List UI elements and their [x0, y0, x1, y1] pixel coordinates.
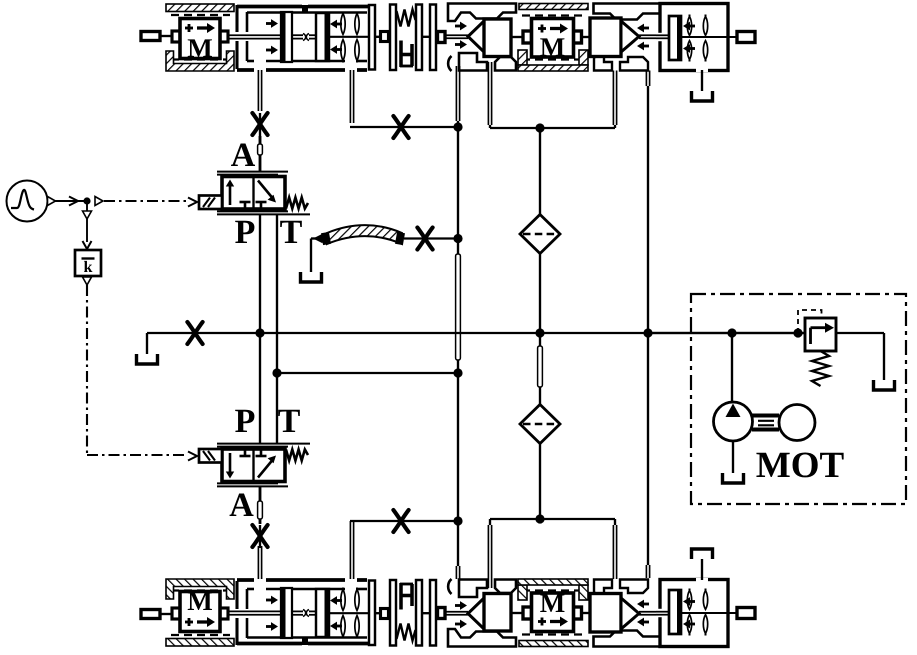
junction (732,333) — [727, 328, 736, 337]
P line between valves — [259, 214, 261, 443]
gain output triangle — [83, 277, 92, 285]
chamber arrows — [688, 623, 695, 626]
junction (648,333) — [643, 328, 652, 337]
chamber springs — [689, 15, 691, 19]
piston rod of C1 — [228, 614, 281, 616]
signal branch port triangle — [95, 197, 103, 206]
valve port rails (bottom) — [217, 210, 288, 212]
orifice O1 — [252, 113, 267, 135]
contact spring (top) — [397, 10, 416, 27]
mass label M (top-left) — [188, 39, 212, 57]
spring chamber arrows of C1 — [335, 23, 342, 26]
end-stop plate C — [430, 5, 436, 71]
housing lower pieces (left) — [448, 56, 451, 71]
hatched guide below mass M2 — [522, 589, 585, 591]
poppet cone P2 — [621, 598, 639, 629]
cylinder C1 housing — [237, 642, 302, 646]
relief valve spring — [812, 351, 829, 386]
link to mass M2 — [512, 36, 524, 38]
cylinder C1 right end plate — [369, 5, 375, 70]
hatched guide housing of top-left mass — [166, 4, 234, 12]
mass block M2 — [523, 31, 532, 43]
proportional solenoid — [199, 449, 222, 463]
link to mass M2 — [512, 612, 524, 614]
end-stop plate C — [430, 580, 436, 646]
valve right cell diagonal arrow — [258, 181, 273, 199]
cylinder C1 housing — [237, 5, 302, 9]
relief valve outlet to tank T4 — [836, 332, 884, 334]
spring chamber arrows of C1 — [335, 625, 342, 628]
line y127 with orifice O2 — [350, 126, 458, 128]
spring chamber housing — [660, 580, 728, 647]
coupling connector square right — [436, 612, 438, 614]
spring-side piston of C1 — [316, 589, 329, 637]
supply line into power unit — [648, 332, 805, 334]
chamber springs — [689, 632, 691, 636]
left anchor stub of top-left mass — [141, 32, 160, 41]
line y519 bottom — [490, 518, 615, 520]
poppet body P2 — [590, 18, 621, 57]
housing upper band (left) of poppet block — [448, 629, 516, 647]
line y128 to spring-chamber port — [490, 127, 615, 129]
relief valve RV1 — [805, 318, 836, 351]
valve blocked-port symbols — [244, 203, 247, 210]
long line x458 down — [457, 127, 459, 254]
poppet body P1 — [484, 19, 511, 57]
housing lower pieces (left) — [448, 579, 451, 594]
coupling connector square right — [436, 36, 438, 38]
junction at (458,127) — [453, 122, 462, 131]
junction P-line — [255, 328, 264, 337]
rod from coupling to poppet P1 — [445, 34, 468, 36]
junction (277,373) — [272, 368, 281, 377]
proportional solenoid — [199, 196, 222, 210]
electric motor EM1 — [779, 405, 815, 441]
signal source S1 — [7, 181, 48, 222]
flexible hose H1 — [327, 225, 402, 244]
hatched guide below mass M2 — [522, 58, 585, 60]
housing upper band (right) — [594, 4, 661, 20]
hose return line y238.5 — [311, 237, 327, 239]
left anchor stub of top-left mass — [141, 610, 160, 619]
A-line of valve V2 down to cylinder C2 — [259, 486, 262, 525]
contact damper (bottom) — [399, 41, 403, 68]
right anchor stub — [737, 608, 755, 619]
hatched guide above mass M2 — [519, 641, 588, 647]
valve return spring — [286, 450, 308, 461]
T line between valves — [276, 214, 278, 443]
seat arrows at poppet P2 — [642, 621, 649, 624]
coupling connector square left — [375, 36, 381, 38]
tank T2 below hose — [310, 239, 312, 273]
inlet arrows at poppet P1 — [455, 25, 462, 28]
bottom-left actuator assembly (mirror) — [141, 579, 445, 646]
signal wire to junction — [56, 200, 88, 202]
tank port of spring chamber — [696, 67, 708, 72]
pipe: C1 right port elbow — [349, 70, 351, 123]
servo valve V2 (bottom, mirror) — [199, 444, 310, 487]
housing upper band (left) of poppet block — [448, 4, 516, 22]
mass block M2 — [523, 607, 532, 619]
signal source output port — [48, 197, 56, 206]
junction (798,333) — [793, 328, 802, 337]
control line (dash-dot) to valve V1 — [104, 200, 186, 202]
valve blocked-port symbols — [244, 449, 247, 456]
piston of C1 left chamber — [281, 12, 292, 62]
end-stop plate B — [416, 580, 422, 646]
mass block M1 body — [172, 608, 180, 619]
cylinder C1 right end plate — [369, 581, 375, 646]
end-stop plate A — [389, 36, 391, 38]
pilot line (dashed) of relief valve — [798, 310, 822, 333]
contact damper (bottom) — [399, 583, 403, 610]
rod inside spring chamber — [681, 36, 737, 38]
pipe segment x540 — [538, 346, 543, 387]
valve body — [222, 177, 285, 210]
contact spring (top) — [397, 624, 416, 641]
seat arrows at poppet P2 — [642, 27, 649, 30]
mass label M (bottom-right) — [540, 594, 564, 612]
spring chamber housing — [660, 4, 728, 71]
hatched guide housing of top-left mass — [166, 639, 234, 647]
spring-side piston of C1 — [316, 13, 329, 61]
link from mass M2 to poppet P2 — [582, 36, 591, 38]
spring chamber piston — [669, 16, 681, 60]
supply line x648 — [645, 71, 647, 87]
valve port rails (top) — [217, 485, 288, 487]
valve port rails (top) — [217, 171, 288, 173]
chamber arrows — [688, 25, 695, 28]
valve return spring — [286, 198, 308, 209]
valve port rails (bottom) — [217, 446, 288, 448]
valve body — [222, 449, 285, 482]
rod from coupling to poppet P1 — [445, 614, 468, 616]
mass label M (top-right) — [540, 38, 564, 56]
junction (458,521) — [453, 516, 462, 525]
poppet cone P1 — [468, 598, 484, 629]
junction (540,333) — [535, 328, 544, 337]
flow arrows in C1 left chamber — [266, 625, 273, 628]
end-stop plate A — [389, 612, 391, 614]
drive shaft — [752, 413, 779, 417]
link from mass M2 to poppet P2 — [582, 612, 591, 614]
port label T (valve V1) — [280, 221, 302, 243]
port label P (valve V2) — [235, 410, 254, 432]
bottom-right housing port pipes — [487, 525, 489, 588]
port label P (valve V1) — [235, 221, 254, 243]
rod from poppet P2 to spring chamber — [639, 614, 669, 616]
piston rod of C1 — [228, 34, 281, 36]
flow arrows in C1 left chamber — [266, 22, 273, 25]
line y373 — [277, 372, 458, 374]
signal junction node — [83, 197, 90, 204]
control line (dash-dot) to valve V2 — [86, 285, 88, 455]
pipe: top-right housing second port — [487, 62, 489, 125]
port label T (valve V2) — [278, 410, 300, 432]
orifice O4 — [417, 228, 432, 250]
port label A (valve V1) — [231, 144, 255, 166]
valve left cell arrow (up) — [229, 453, 232, 474]
gain block K1 — [75, 250, 101, 276]
junction (458,373) — [453, 368, 462, 377]
label MOT — [756, 453, 789, 477]
pump tank line T5 — [732, 441, 734, 473]
poppet body P1 — [484, 594, 511, 632]
pipe segment on A-line — [259, 136, 262, 172]
valve right cell diagonal arrow — [258, 460, 273, 478]
top-left actuator assembly — [141, 4, 445, 71]
rod inside spring chamber — [681, 612, 737, 614]
housing lower pieces (right) — [594, 580, 612, 597]
mass block M1 body — [172, 31, 180, 42]
line down to pump — [731, 333, 733, 403]
junction (540,519) — [535, 514, 544, 523]
piston of C1 left chamber — [281, 588, 292, 638]
housing upper band (right) — [594, 631, 661, 647]
tank port of spring chamber — [696, 578, 708, 583]
coupling connector square left — [375, 612, 381, 614]
port label A (valve V2) — [230, 494, 254, 516]
spring chamber piston — [669, 590, 681, 634]
poppet cone P1 — [468, 21, 484, 52]
poppet cone P2 — [621, 21, 639, 52]
branch down to gain — [86, 204, 88, 212]
filter F2 — [520, 405, 560, 444]
orifice O3 — [187, 322, 202, 344]
arrow into tank elbow — [313, 234, 323, 244]
right anchor stub — [737, 32, 755, 43]
pipe: top-right housing left port down — [455, 66, 457, 121]
servo valve V1 (top) — [199, 172, 310, 215]
inlet arrows at poppet P1 — [455, 623, 462, 626]
poppet body P2 — [590, 594, 621, 633]
hydraulic pump PU1 — [714, 402, 753, 441]
power unit enclosure (dash-dot) — [691, 294, 906, 504]
pipe segment x458 — [456, 254, 461, 360]
valve left cell arrow (up) — [229, 184, 232, 205]
hatched guide above mass M2 — [519, 4, 588, 10]
housing lower pieces (right) — [594, 54, 612, 71]
rod from poppet P2 to spring chamber — [639, 34, 669, 36]
main horizontal line y333 — [147, 332, 805, 334]
bottom-right poppet valve assembly (mirror) — [445, 549, 755, 647]
return springs of C1 — [342, 12, 344, 16]
return springs of C1 — [342, 635, 344, 639]
mass label M (bottom-left) — [188, 592, 212, 610]
end-stop plate B — [416, 5, 422, 71]
pipe: C2 right port elbow — [350, 520, 458, 522]
filter F1 — [539, 128, 541, 215]
tank T1 branch — [146, 333, 148, 354]
top-right poppet valve assembly — [445, 4, 755, 102]
junction hose line — [453, 234, 462, 243]
pipe: cylinder C1 left port down to orifice — [257, 70, 259, 111]
